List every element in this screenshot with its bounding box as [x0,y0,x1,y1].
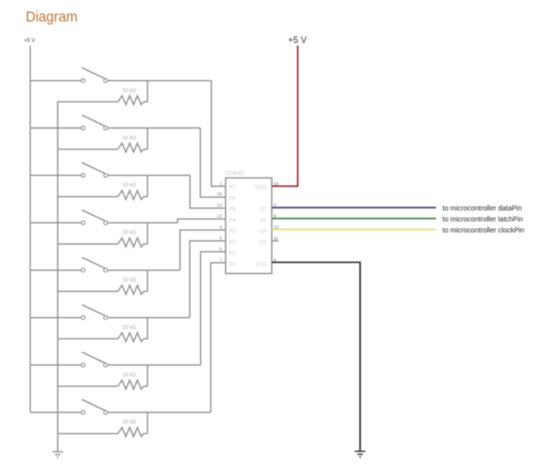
IC pin number 6 [219,246,222,251]
svg-text:CP: CP [259,229,267,235]
wire switch S2 output [107,127,200,129]
svg-text:P2: P2 [229,240,236,246]
wire resistor R7 to switch S7 output [147,365,149,386]
resistor R1 10 kOhm [118,88,148,105]
wire VDD +5V (red) [272,45,298,186]
svg-text:15: 15 [217,192,223,197]
switch S6 [81,305,107,320]
IC pin number 13 [217,214,223,219]
wire resistor R5 to ground rail [58,290,118,292]
wire to IC pin 13 (P4) [178,219,226,223]
svg-text:to microcontroller dataPin: to microcontroller dataPin [443,206,522,213]
IC pin number 14 [217,203,223,208]
switch S5 [81,257,107,272]
switch S2 [81,115,107,130]
svg-text:Q7: Q7 [259,207,266,213]
IC pin label P2 [229,240,236,246]
IC pin label P6 [229,196,236,202]
resistor R5 10 kOhm [118,278,148,295]
IC pin label P3 [229,229,236,235]
wire switch S3 output [107,174,190,176]
svg-text:Diagram: Diagram [26,9,78,25]
ground rail [57,102,59,452]
IC pin label P7 [229,185,236,191]
svg-text:4: 4 [219,225,222,230]
switch S4 [81,210,107,225]
wire switch S7 output [107,364,200,366]
wire +5V rail to switch S4 [30,222,81,224]
svg-text:DS: DS [259,240,267,246]
wire to IC pin 15 (P6) [200,128,225,197]
wire PL to microcontroller latchPin (green) [272,218,436,220]
IC pin number 10 [274,225,280,230]
wire switch S4 output [107,222,177,224]
wire resistor R7 to ground rail [58,385,118,387]
wire resistor R6 to ground rail [58,338,118,340]
svg-text:1: 1 [219,181,222,186]
svg-text:10 kΩ: 10 kΩ [122,372,136,378]
wire +5V rail to switch S2 [30,127,81,129]
wire VSS to ground (black) [272,262,360,451]
svg-text:P5: P5 [229,207,236,213]
wire switch S6 output [107,317,190,319]
label dataPin [443,206,522,213]
svg-text:16: 16 [274,181,280,186]
wire +5V rail to switch S5 [30,269,81,271]
wire resistor R1 to switch S1 output [147,81,149,102]
IC pin number 4 [219,225,222,230]
switch S1 [81,68,107,83]
wire resistor R3 to switch S3 output [147,175,149,196]
IC pin number 16 [274,181,280,186]
wire resistor R3 to ground rail [58,196,118,198]
IC pin label Q7 [259,207,266,213]
wire resistor R8 to ground rail [58,433,118,435]
wire switch S1 output [107,80,211,82]
wire resistor R5 to switch S5 output [147,270,149,291]
wire Q7 to microcontroller dataPin (blue) [272,207,436,209]
svg-text:P4: P4 [229,218,236,224]
resistor R2 10 kOhm [118,135,148,152]
switch S3 [81,163,107,178]
svg-text:P6: P6 [229,196,236,202]
resistor R3 10 kOhm [118,183,148,200]
svg-text:10 kΩ: 10 kΩ [122,278,136,284]
wire +5V rail to switch S8 [30,411,81,413]
wire to IC pin 7 (P0) [211,263,226,413]
svg-text:P3: P3 [229,229,236,235]
wire resistor R6 to switch S6 output [147,318,149,339]
switch S8 [81,400,107,415]
resistor R4 10 kOhm [118,230,148,247]
wire resistor R1 to ground rail [58,101,118,103]
svg-text:7: 7 [219,257,222,262]
IC pin number 1 [219,181,222,186]
svg-text:10 kΩ: 10 kΩ [122,88,136,94]
svg-text:5: 5 [219,236,222,241]
wire to IC pin 14 (P5) [190,175,226,208]
wire resistor R4 to switch S4 output [147,223,149,244]
IC pin label VDD [255,185,267,191]
svg-text:6: 6 [219,246,222,251]
IC pin number 9 [274,214,277,219]
wire resistor R4 to ground rail [58,243,118,245]
IC pin label PL [260,218,267,224]
wire to IC pin 6 (P1) [201,252,226,365]
+5V power rail [29,46,31,413]
resistor R8 10 kOhm [118,420,148,437]
svg-text:VDD: VDD [255,185,267,191]
label clockPin [443,228,525,235]
IC pin number 3 [274,203,277,208]
wire to IC pin 4 (P3) [180,230,226,270]
wire to IC pin 5 (P2) [190,241,226,318]
svg-text:CD4021: CD4021 [226,171,245,177]
svg-text:13: 13 [217,214,223,219]
IC pin number 5 [219,236,222,241]
svg-text:10 kΩ: 10 kΩ [122,420,136,426]
wire +5V rail to switch S6 [30,317,81,319]
svg-text:10 kΩ: 10 kΩ [122,183,136,189]
svg-text:VSS: VSS [256,262,267,268]
label latchPin [443,217,524,224]
resistor R7 10 kOhm [118,372,148,389]
switch S7 [81,352,107,367]
IC pin label P0 [229,262,236,268]
svg-text:to microcontroller latchPin: to microcontroller latchPin [443,217,524,224]
svg-text:to microcontroller clockPin: to microcontroller clockPin [443,228,525,235]
IC pin number 15 [217,192,223,197]
ground (right) [355,451,366,457]
svg-text:10 kΩ: 10 kΩ [122,135,136,141]
IC pin label VSS [256,262,267,268]
wire +5V rail to switch S3 [30,174,81,176]
svg-text:14: 14 [217,203,223,208]
title "Diagram" [26,9,78,25]
wire CP to microcontroller clockPin (yellow) [272,229,436,231]
IC pin number 7 [219,257,222,262]
svg-text:P0: P0 [229,262,236,268]
resistor R6 10 kOhm [118,325,148,342]
wire resistor R2 to ground rail [58,148,118,150]
svg-text:11: 11 [274,236,279,241]
svg-text:P1: P1 [229,251,236,257]
svg-text:+5 V: +5 V [288,35,307,45]
svg-text:10 kΩ: 10 kΩ [122,325,136,331]
svg-text:PL: PL [260,218,267,224]
IC pin label DS [259,240,267,246]
svg-text:P7: P7 [229,185,236,191]
IC pin label P4 [229,218,236,224]
wire to IC pin 1 (P7) [211,81,225,187]
+5V label (VDD supply) [288,35,307,45]
wire +5V rail to switch S7 [30,364,81,366]
wire +5V rail to switch S1 [30,80,81,82]
wire switch S5 output [107,269,180,271]
ground (left) [52,452,63,457]
IC U1 CD4021 shift register [226,171,272,273]
IC pin label P5 [229,207,236,213]
svg-text:10 kΩ: 10 kΩ [122,230,136,236]
IC pin number 11 [274,236,279,241]
IC pin number 8 [274,257,277,262]
wire resistor R2 to switch S2 output [147,128,149,149]
IC pin label CP [259,229,267,235]
IC pin label P1 [229,251,236,257]
svg-text:+5 V: +5 V [24,38,35,44]
IC pin 11 DS stub [272,240,279,242]
wire resistor R8 to switch S8 output [147,412,149,433]
+5V label (left rail) [24,38,35,44]
wire switch S8 output [107,411,210,413]
